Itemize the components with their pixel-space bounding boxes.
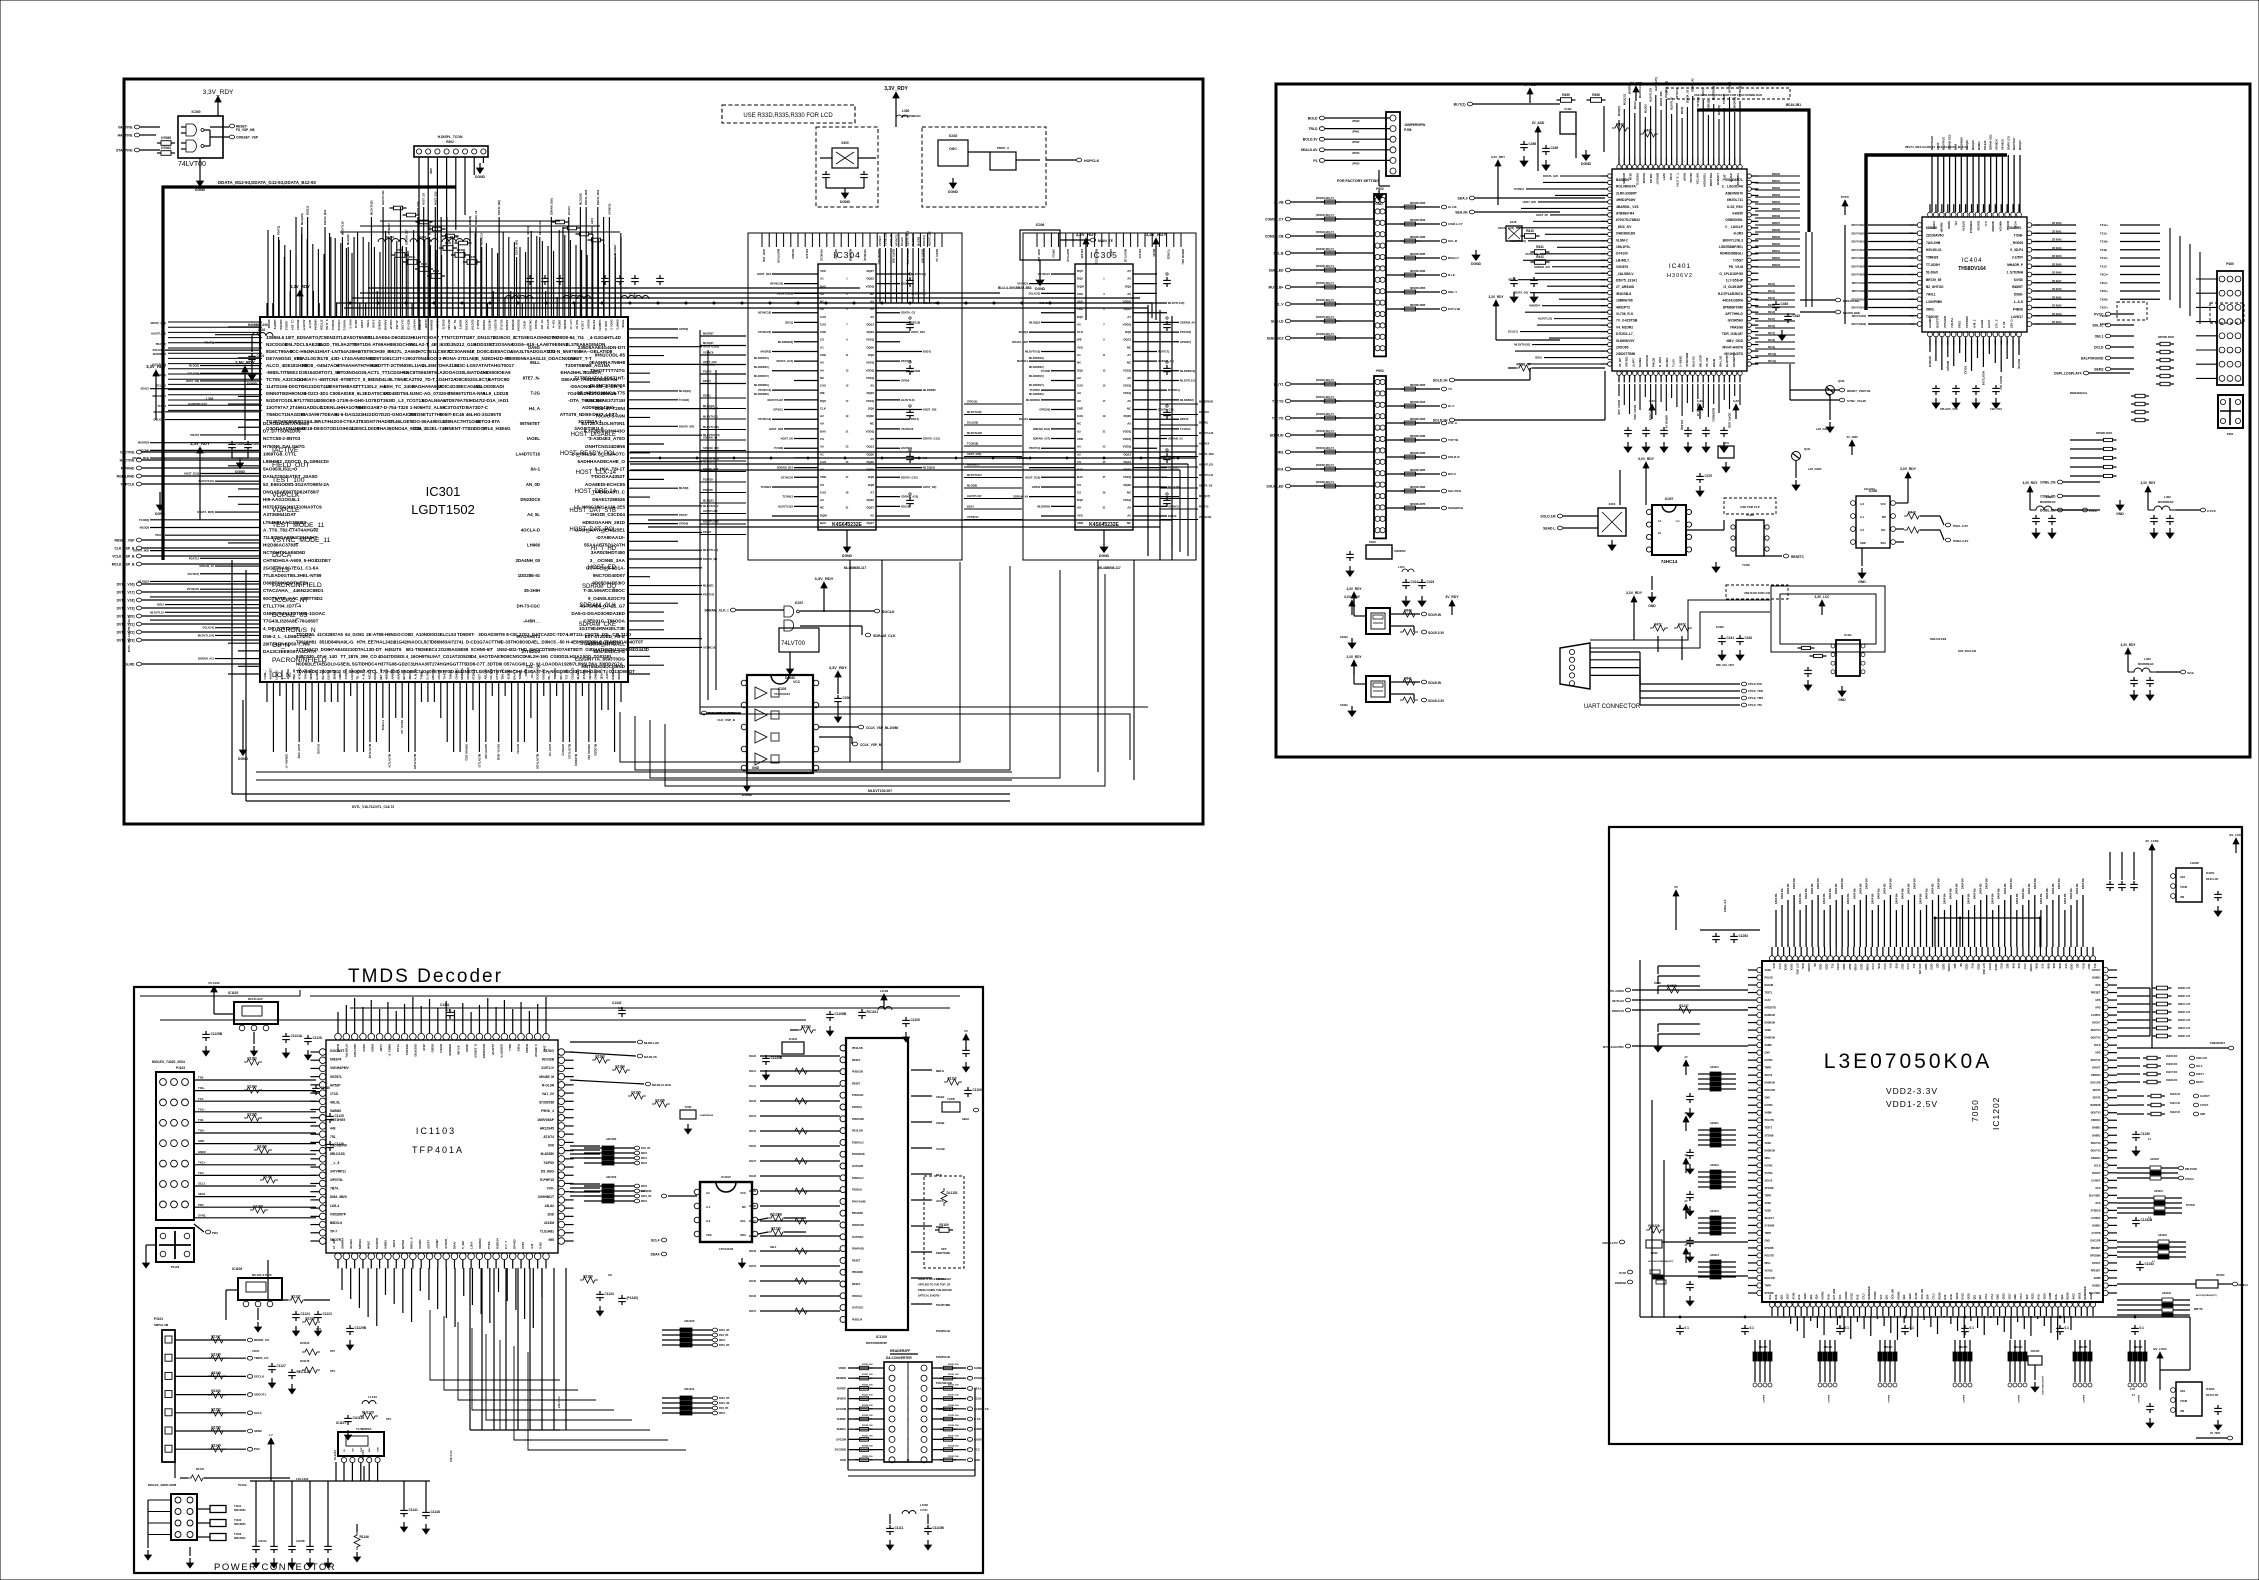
svg-text:OBL.Y: OBL.Y	[1448, 290, 1457, 294]
svg-text:R441: R441	[1536, 245, 1544, 249]
svg-text:DCLD: DCLD	[2094, 345, 2104, 349]
svg-text:CTDA19: CTDA19	[337, 320, 341, 331]
svg-text:95O8N3: 95O8N3	[511, 320, 515, 331]
svg-text:4D447DGEDI: 4D447DGEDI	[378, 654, 405, 659]
svg-text:24019T81: 24019T81	[319, 669, 339, 674]
svg-text:MLDVTA120: MLDVTA120	[535, 754, 539, 769]
svg-text:20EOE0-171I9: 20EOE0-171I9	[318, 398, 349, 403]
svg-text:GPIO0: GPIO0	[1109, 249, 1112, 257]
svg-text:NNGD8GC31: NNGD8GC31	[550, 669, 577, 674]
svg-text:R459: R459	[1562, 93, 1570, 97]
svg-text:0.1: 0.1	[1845, 1326, 1850, 1330]
svg-text:A9: A9	[1077, 391, 1081, 395]
svg-text:DDATA_M12: DDATA_M12	[323, 209, 327, 225]
svg-text:DDC1: DDC1	[719, 1413, 726, 1415]
svg-text:DHCLPM: DHCLPM	[1765, 1089, 1775, 1092]
wires left of IC404	[1841, 195, 1914, 326]
svg-text:C1141: C1141	[409, 1508, 418, 1512]
svg-text:VACTIVE: VACTIVE	[120, 450, 135, 454]
panel 2 frame: IC401 MCU + IC404 page	[1276, 84, 2250, 757]
svg-text:TCON24: TCON24	[760, 485, 771, 489]
svg-text:AP52P: AP52P	[330, 1083, 341, 1087]
svg-text:CTL3: CTL3	[2020, 1293, 2023, 1300]
svg-text:DATA-B4-: DATA-B4-	[1992, 893, 1995, 904]
svg-text:DO5/4: DO5/4	[439, 1044, 443, 1053]
svg-text:CAS: CAS	[820, 315, 826, 319]
svg-text:MLDVTA131: MLDVTA131	[199, 479, 215, 483]
svg-text:[FB4080-601]-T4: [FB4080-601]-T4	[1316, 333, 1334, 336]
svg-text:VPPRO9: VPPRO9	[1965, 316, 1969, 328]
svg-text:3,3V_RDY: 3,3V_RDY	[1900, 467, 1917, 471]
svg-text:D7_D7T5ON1D05: D7_D7T5ON1D05	[263, 429, 301, 434]
svg-text:GLRP85: GLRP85	[1725, 355, 1729, 367]
svg-text:R1124: R1124	[749, 1115, 757, 1118]
svg-text:A-3-: A-3-	[1984, 221, 1988, 227]
svg-text:S_33RGR: S_33RGR	[474, 1044, 478, 1059]
svg-text:SDO6: SDO6	[1947, 221, 1951, 229]
right cluster group4 bottom	[2117, 1292, 2203, 1317]
resistor array ARJ180 cluster C	[584, 1137, 651, 1165]
terminal HACTIVE	[118, 133, 156, 137]
svg-text:VOPCLE: VOPCLE	[272, 507, 300, 514]
svg-text:AT4/74: AT4/74	[543, 1135, 554, 1139]
svg-text:BM182: BM182	[1772, 187, 1781, 190]
svg-text:4OVO2D: 4OVO2D	[1645, 354, 1649, 367]
svg-text:QE2: QE2	[2005, 964, 2008, 969]
svg-text:A1: A1	[820, 452, 824, 456]
svg-text:TXCA-: TXCA-	[2100, 281, 2108, 285]
svg-text:C1253: C1253	[1739, 934, 1749, 938]
svg-text:DQ22: DQ22	[866, 277, 874, 281]
svg-text:E4T2EA11OLI6T0N1: E4T2EA11OLI6T0N1	[581, 421, 625, 426]
svg-text:HSYNC21: HSYNC21	[1728, 81, 1731, 93]
svg-text:DDATA_M1]: DDATA_M1]	[1999, 376, 2002, 390]
right rows CLVOUT group	[2117, 1094, 2210, 1116]
svg-text:TCON3: TCON3	[911, 369, 921, 373]
svg-text:GND: GND	[429, 168, 433, 174]
svg-text:[FB4060-601]-T4: [FB4060-601]-T4	[1316, 299, 1334, 302]
svg-text:MLDQ3: MLDQ3	[1644, 104, 1647, 113]
svg-text:A5: A5	[1127, 506, 1131, 510]
ground at IC305	[1099, 530, 1110, 558]
svg-text:DQ5: DQ5	[1077, 277, 1083, 281]
svg-text:DDATA_M25: DDATA_M25	[892, 249, 895, 264]
svg-text:BR729_55: BR729_55	[1926, 278, 1941, 282]
IC IC1202 L3E07050K0A LCD controller QFP	[1748, 947, 2117, 1316]
svg-text:D6GID23H: D6GID23H	[391, 335, 414, 340]
left label column of IC304	[754, 356, 769, 396]
svg-text:A1: A1	[820, 277, 824, 281]
svg-text:DDC1: DDC1	[641, 1186, 648, 1188]
svg-text:SEAD.L: SEAD.L	[1543, 526, 1555, 530]
svg-text:LA4DTCT16: LA4DTCT16	[516, 451, 541, 456]
svg-text:SDRAM_DQ: SDRAM_DQ	[582, 584, 616, 590]
svg-text:C1128: C1128	[313, 1036, 322, 1040]
svg-text:8-CEL27G2: 8-CEL27G2	[506, 632, 530, 637]
svg-text:MHADR_P: MHADR_P	[2007, 263, 2024, 267]
svg-text:3,3V: 3,3V	[1649, 399, 1655, 403]
svg-text:8CC-H94N: 8CC-H94N	[290, 349, 313, 354]
svg-text:HLDVTL318]: HLDVTL318]	[703, 520, 719, 524]
svg-text:TL78M05FA: TL78M05FA	[356, 1427, 372, 1431]
svg-text:PDAT15: PDAT15	[1199, 506, 1209, 509]
component D601 photo-sensor block	[1340, 655, 1445, 717]
svg-text:B8DO-6: B8DO-6	[330, 1221, 342, 1225]
svg-text:HOST_D4: HOST_D4	[548, 744, 552, 757]
svg-text:BRH6: BRH6	[1712, 359, 1716, 367]
svg-text:EHA4NHL7I: EHA4NHL7I	[561, 370, 587, 375]
svg-text:PT8A: PT8A	[487, 1240, 491, 1249]
svg-text:VCC: VCC	[1839, 1294, 1842, 1299]
svg-text:THBDV8: THBDV8	[1736, 173, 1740, 185]
svg-text:7H0L1: 7H0L1	[1926, 293, 1936, 297]
svg-text:2-1/55V: 2-1/55V	[2012, 256, 2024, 260]
svg-text:OE23: OE23	[2032, 1293, 2035, 1300]
svg-text:HLDVTL322: HLDVTL322	[778, 504, 794, 508]
svg-text:JP600: JP600	[1352, 119, 1360, 123]
svg-text:PRESET: PRESET	[2091, 992, 2101, 995]
svg-text:VSYNC: VSYNC	[1765, 1269, 1774, 1272]
svg-text:0.1: 0.1	[1910, 1326, 1915, 1330]
svg-text:DVOUT: DVOUT	[2092, 1022, 2101, 1025]
svg-text:MADR19]: MADR19]	[574, 754, 578, 766]
svg-text:DVOUT: DVOUT	[2092, 969, 2101, 972]
svg-text:O/1M2-: O/1M2-	[1665, 357, 1669, 367]
svg-text:VDD: VDD	[820, 475, 826, 479]
svg-text:2L4P7: 2L4P7	[1631, 358, 1635, 367]
svg-text:MLDVTA131]: MLDVTA131]	[1095, 249, 1098, 264]
svg-text:ARJ160: ARJ160	[606, 1175, 617, 1179]
svg-text:HOST_D2]: HOST_D2]	[923, 485, 936, 489]
svg-text:ML4DDR18]: ML4DDR18]	[1029, 356, 1044, 360]
svg-text:A5: A5	[870, 300, 874, 304]
svg-text:BA0: BA0	[820, 284, 826, 288]
IC IC305 K4S643232E SDRAM	[1075, 250, 1133, 530]
svg-text:-IA8DT: -IA8DT	[360, 320, 364, 329]
svg-text:CKE: CKE	[1077, 406, 1083, 410]
svg-text:751_: 751_	[330, 1135, 338, 1139]
svg-text:SDA1: SDA1	[198, 1192, 206, 1196]
svg-text:OUT/OSC: OUT/OSC	[852, 1236, 864, 1239]
svg-text:OSDR14: OSDR14	[2091, 1157, 2101, 1160]
terminal RXTD group	[1615, 1270, 1748, 1285]
svg-text:A9BVMG70: A9BVMG70	[1725, 191, 1743, 195]
svg-text:BHBK2: BHBK2	[2092, 1134, 2101, 1137]
svg-text:ODCK: ODCK	[1790, 964, 1793, 971]
svg-text:DCLK18: DCLK18	[154, 418, 165, 422]
svg-text:BD121: BD121	[141, 387, 150, 391]
svg-text:DDATA_M7]: DDATA_M7]	[679, 424, 694, 428]
svg-text:T738I-: T738I-	[366, 320, 370, 328]
svg-text:1T1D: 1T1D	[330, 1092, 339, 1096]
svg-text:VCC: VCC	[1881, 502, 1887, 506]
svg-text:SRV3_A: SRV3_A	[409, 1237, 413, 1249]
svg-text:HLDVTL315: HLDVTL315	[703, 509, 718, 513]
svg-text:SDRAM_CKE: SDRAM_CKE	[579, 622, 616, 628]
svg-text:D7D/D1-L7_: D7D/D1-L7_	[1616, 332, 1635, 336]
svg-text:A4LA2-T_4E_I633: A4LA2-T_4E_I633	[410, 342, 449, 347]
svg-text:_4BP2: _4BP2	[392, 1239, 396, 1250]
svg-text:TRPR: TRPR	[1765, 1067, 1772, 1070]
svg-text:/V-736_R-S: /V-736_R-S	[1616, 312, 1634, 316]
svg-text:3,3V_RDY: 3,3V_RDY	[290, 284, 310, 289]
svg-text:[FB4060-601]-T4: [FB4060-601]-T4	[1316, 481, 1334, 484]
svg-text:LCT_I3: LCT_I3	[569, 320, 573, 330]
svg-text:HV3945: HV3945	[1622, 173, 1626, 184]
svg-text:PDAT27]: PDAT27]	[703, 592, 714, 596]
svg-text:CLK_VSP_B: CLK_VSP_B	[717, 718, 736, 722]
svg-text:RAS: RAS	[1077, 468, 1083, 472]
wires from R302 dropping to IC301 field	[419, 163, 474, 390]
svg-text:L403: L403	[2144, 657, 2151, 661]
svg-text:MADR27: MADR27	[613, 244, 617, 255]
svg-text:COM1.L.CB: COM1.L.CB	[1265, 234, 1284, 238]
svg-text:SDRAM_A9: SDRAM_A9	[474, 210, 478, 225]
svg-text:DDV74.M29]: DDV74.M29]	[1852, 274, 1867, 277]
svg-text:A162: A162	[1669, 173, 1673, 181]
svg-text:IC1102: IC1102	[721, 1175, 731, 1179]
svg-text:HOST_DAT_STB: HOST_DAT_STB	[569, 508, 616, 514]
svg-text:BEDID_CS: BEDID_CS	[254, 1338, 269, 1342]
ground at IC307	[785, 652, 796, 680]
svg-text:DCLK10: DCLK10	[1984, 140, 1987, 150]
svg-text:GSDB: GSDB	[2049, 1292, 2052, 1299]
resistors on UART lines	[1626, 591, 1692, 660]
svg-text:DQ9: DQ9	[1125, 330, 1131, 334]
svg-text:VtoOB: VtoOB	[936, 1147, 945, 1151]
svg-text:SDRAM_A5: SDRAM_A5	[199, 564, 214, 568]
svg-text:DVI1_B5: DVI1_B5	[719, 1408, 729, 1410]
svg-text:OE19: OE19	[1860, 964, 1863, 971]
svg-text:DDATA_M18: DDATA_M18	[1199, 453, 1214, 456]
svg-text:5178_43D-: 5178_43D-	[318, 356, 341, 361]
svg-text:NH35A4: NH35A4	[314, 320, 318, 331]
terminal RESETC	[1712, 554, 1805, 572]
svg-text:7-8LTH-: 7-8LTH-	[1950, 317, 1954, 328]
svg-text:D2G32-: D2G32-	[1976, 221, 1980, 231]
svg-text:219TL/V: 219TL/V	[541, 1066, 554, 1070]
svg-text:HOST_D30: HOST_D30	[416, 201, 420, 215]
svg-text:UPFLIED TO THE TOP_OF: UPFLIED TO THE TOP_OF	[918, 1283, 951, 1287]
svg-text:TT-OD5H: TT-OD5H	[1926, 263, 1940, 267]
svg-text:SOO_SOLD.049: SOO_SOLD.049	[1958, 650, 1977, 653]
svg-text:DATA-B1+: DATA-B1+	[2022, 887, 2025, 899]
svg-text:MHSEN: MHSEN	[836, 1376, 846, 1380]
svg-text:B411]: B411]	[1768, 290, 1775, 293]
ground DGND at R302	[475, 163, 486, 179]
svg-text:R1127 100: R1127 100	[862, 1435, 873, 1437]
svg-text:DEBZHEGH: DEBZHEGH	[2070, 391, 2087, 395]
IC IC1105 regulator top	[202, 981, 322, 1060]
svg-text:CY/OTB: CY/OTB	[2091, 1232, 2100, 1235]
terminal SOCLK	[800, 609, 895, 614]
svg-text:V-H5: V-H5	[538, 1242, 542, 1249]
svg-text:MLDVTL124]: MLDVTL124]	[198, 633, 214, 637]
svg-text:TCON13: TCON13	[782, 495, 793, 499]
svg-text:DCLK31]: DCLK31]	[153, 348, 164, 352]
svg-text:EXT_RES: EXT_RES	[1982, 964, 1985, 975]
svg-text:MADR13]: MADR13]	[1734, 97, 1737, 108]
svg-text:OE20: OE20	[1924, 964, 1927, 971]
svg-text:VSYNC: VSYNC	[2029, 964, 2032, 973]
svg-text:T6C0O-5-A9N: T6C0O-5-A9N	[595, 413, 625, 418]
svg-text:HPD: HPD	[2095, 1007, 2100, 1010]
pull resistors at IC1102	[738, 1213, 806, 1269]
svg-text:A2: A2	[820, 414, 824, 418]
svg-text:SR520B-2R5B: SR520B-2R5B	[1410, 470, 1426, 472]
terminals right of IC401	[1772, 298, 1871, 403]
svg-text:DGND: DGND	[238, 757, 249, 761]
svg-text:ED0O5H: ED0O5H	[517, 320, 521, 331]
wire rows IC301-right upper	[700, 332, 746, 384]
svg-text:DHGHB: DHGHB	[1765, 984, 1774, 987]
svg-text:R1137: R1137	[749, 1310, 757, 1313]
svg-text:TCON10: TCON10	[1029, 388, 1040, 392]
svg-text:1I0T_ED5AETG7: 1I0T_ED5AETG7	[285, 335, 321, 340]
parts below connector B	[1344, 540, 1459, 615]
svg-text:SECLK: SECLK	[254, 1374, 265, 1378]
svg-text:DATA_B5: DATA_B5	[719, 1344, 730, 1347]
svg-text:1--S-S: 1--S-S	[2014, 300, 2023, 304]
svg-text:GHGGT7T5: GHGGT7T5	[443, 662, 467, 667]
svg-text:R1136: R1136	[749, 1295, 757, 1298]
svg-text:0 R300: 0 R300	[161, 136, 172, 140]
svg-text:004HTC: 004HTC	[615, 320, 619, 330]
svg-text:VACTIVE: VACTIVE	[118, 125, 133, 129]
svg-text:[FB4000-601]-T4: [FB4000-601]-T4	[1316, 197, 1334, 200]
svg-text:SDA.0: SDA.0	[1458, 196, 1468, 200]
svg-text:BD11]: BD11]	[703, 394, 710, 398]
oscillator feed block IC306	[1020, 223, 1114, 291]
connector P602 stack	[1374, 187, 1386, 356]
svg-text:DE: DE	[1959, 964, 1962, 968]
svg-text:VTOBTPL: VTOBTPL	[345, 1044, 349, 1058]
svg-text:OE17: OE17	[2008, 1293, 2011, 1300]
svg-text:C1126: C1126	[335, 1142, 344, 1146]
svg-text:R1136 100: R1136 100	[948, 1425, 959, 1427]
trim pot bottom middle	[2028, 1350, 2043, 1395]
right top corner parts	[942, 1029, 985, 1121]
svg-text:TC74VHC04: TC74VHC04	[774, 692, 790, 696]
svg-text:BM190: BM190	[1772, 243, 1781, 246]
resistor box grid above IC301	[390, 206, 605, 245]
svg-text:C301: C301	[257, 354, 265, 358]
svg-text:ML4DDR29]: ML4DDR29]	[754, 383, 769, 387]
vertical label combs above SDRAM loops	[762, 233, 1184, 264]
pull-up resistors at IC440	[1896, 467, 1940, 542]
inductor L400 microbead filter	[2022, 481, 2098, 539]
svg-text:VDD: VDD	[1077, 437, 1083, 441]
svg-text:OCK_INV: OCK_INV	[1918, 964, 1921, 975]
svg-text:R1135 100: R1135 100	[948, 1415, 959, 1417]
svg-text:HLDVTL322: HLDVTL322	[381, 190, 385, 205]
svg-text:QE0: QE0	[1953, 964, 1956, 969]
svg-text:17T3A6CO_DO6: 17T3A6CO_DO6	[296, 647, 330, 652]
svg-text:A0: A0	[1077, 445, 1081, 449]
right cluster group2	[2117, 1190, 2195, 1227]
svg-text:34-6-DAI1323H22: 34-6-DAI1323H22	[334, 412, 372, 417]
svg-text:CLVBUF: CLVBUF	[2091, 1014, 2101, 1017]
svg-text:SCBSE_CS: SCBSE_CS	[974, 1407, 989, 1411]
svg-text:SCL3: SCL3	[272, 567, 289, 574]
svg-text:JUMPER/5PIN: JUMPER/5PIN	[1404, 123, 1426, 127]
svg-text:TXC+: TXC+	[198, 1160, 206, 1164]
svg-text:VSYNC11: VSYNC11	[967, 515, 979, 519]
svg-text:A7: A7	[1127, 315, 1131, 319]
svg-text:STS06B: STS06B	[1765, 1187, 1774, 1190]
svg-text:3V_ADD: 3V_ADD	[1846, 435, 1857, 439]
svg-text:L30A: L30A	[470, 1241, 474, 1249]
svg-text:VSYNC12: VSYNC12	[1676, 87, 1679, 99]
svg-text:SEL1: SEL1	[770, 1245, 777, 1249]
svg-text:P602: P602	[1376, 187, 1384, 191]
svg-text:4R3/0: 4R3/0	[465, 1044, 469, 1052]
svg-text:7B74_: 7B74_	[330, 1187, 340, 1191]
svg-text:CN/4B: CN/4B	[936, 1121, 944, 1125]
svg-text:R1126: R1126	[749, 1145, 757, 1148]
svg-text:HFDD O 110 B SW1EH: HFDD O 110 B SW1EH	[918, 1277, 946, 1281]
svg-text:MUTE.B+: MUTE.B+	[1269, 285, 1284, 289]
svg-text:SR520B-2R0B: SR520B-2R0B	[1410, 203, 1426, 205]
right edge cross connector P481	[2218, 395, 2243, 436]
svg-text:21AP1P: 21AP1P	[491, 1044, 495, 1055]
svg-text:PDAT13: PDAT13	[189, 556, 200, 560]
svg-text:DDCA: DDCA	[272, 552, 292, 559]
svg-text:VSYNC20]: VSYNC20]	[758, 330, 771, 334]
svg-text:SRE_SOL_049T: SRE_SOL_049T	[1716, 664, 1734, 667]
svg-text:DATA-B6-: DATA-B6-	[1907, 883, 1910, 894]
svg-text:TX1C-: TX1C-	[2100, 264, 2108, 268]
svg-text:2L.HS: 2L.HS	[1448, 205, 1457, 209]
svg-text:BD112: BD112	[1634, 101, 1637, 109]
svg-text:VSYNC10: VSYNC10	[2001, 138, 2004, 150]
svg-text:RESET: RESET	[852, 1059, 861, 1062]
svg-text:H37TG08-GD2C3: H37TG08-GD2C3	[378, 662, 414, 667]
svg-text:L303: L303	[206, 397, 213, 401]
svg-text:C10E_-: C10E_-	[263, 670, 267, 680]
svg-text:USE R468,R469,R434,R435 FOR CP: USE R468,R469,R434,R435 FOR CPLD DOWNLOA…	[1694, 93, 1762, 97]
power 3.3V_RDY at IC300	[203, 89, 234, 116]
svg-text:3/P07GL: 3/P07GL	[330, 1178, 343, 1182]
svg-text:TTT130L2_H4: TTT130L2_H4	[356, 384, 386, 389]
svg-text:ML4DDR20]: ML4DDR20]	[1029, 392, 1044, 396]
right side TMB RESET line	[2117, 1041, 2234, 1050]
svg-text:DDATA_G8: DDATA_G8	[1199, 485, 1213, 488]
svg-text:5V-L002: 5V-L002	[208, 981, 220, 985]
svg-text:VSSQ: VSSQ	[1123, 384, 1132, 388]
svg-text:VSSQ: VSSQ	[1123, 498, 1132, 502]
svg-text:CA2T92_7D-T: CA2T92_7D-T	[405, 377, 435, 382]
svg-text:PIP/RHD: PIP/RHD	[121, 466, 135, 470]
svg-text:995: 995	[548, 1238, 554, 1242]
svg-text:SR520B-2R0B: SR520B-2R0B	[1410, 385, 1426, 387]
svg-text:PDAT24]: PDAT24]	[2017, 359, 2020, 369]
svg-text:VM1HAPMV: VM1HAPMV	[330, 1066, 349, 1070]
resistor cluster above IC301 left	[391, 241, 481, 278]
svg-text:DQ13: DQ13	[1123, 460, 1131, 464]
svg-text:GPIO2]: GPIO2]	[679, 327, 688, 331]
svg-text:DATA-B5+: DATA-B5+	[2046, 887, 2049, 899]
svg-text:DVTL_V21]: DVTL_V21]	[117, 622, 135, 626]
svg-text:A5: A5	[870, 437, 874, 441]
svg-text:TXT.YS: TXT.YS	[1272, 399, 1284, 403]
svg-text:DHBK2M: DHBK2M	[1765, 1014, 1775, 1017]
svg-text:HSYNC18]: HSYNC18]	[758, 311, 771, 315]
svg-text:2T_AR6168: 2T_AR6168	[1616, 285, 1634, 289]
terminal SEL.1	[640, 1189, 697, 1256]
svg-text:BOUTV3: BOUTV3	[2091, 1142, 2101, 1145]
svg-text:MLDDR69]: MLDDR69]	[848, 249, 851, 261]
